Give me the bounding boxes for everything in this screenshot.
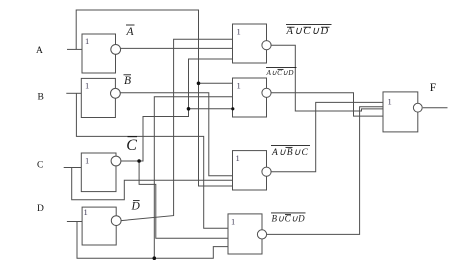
svg-text:B: B [124, 75, 131, 87]
svg-text:C: C [37, 161, 43, 171]
svg-text:1: 1 [388, 96, 392, 106]
svg-text:C: C [126, 137, 137, 154]
svg-text:1: 1 [85, 155, 89, 165]
svg-text:1: 1 [84, 207, 88, 217]
svg-text:1: 1 [237, 26, 241, 36]
svg-text:D: D [131, 201, 141, 213]
svg-text:A∪C∪D: A∪C∪D [266, 69, 295, 77]
svg-text:1: 1 [231, 217, 235, 227]
svg-text:1: 1 [237, 80, 241, 90]
svg-text:A: A [36, 46, 43, 56]
svg-text:A: A [126, 26, 135, 38]
svg-text:F: F [430, 82, 436, 94]
svg-text:1: 1 [85, 81, 89, 91]
svg-text:A∪B∪C: A∪B∪C [271, 148, 309, 158]
svg-text:1: 1 [85, 36, 89, 46]
svg-text:1: 1 [236, 153, 240, 163]
svg-text:B: B [38, 92, 44, 102]
svg-text:D: D [37, 204, 44, 214]
